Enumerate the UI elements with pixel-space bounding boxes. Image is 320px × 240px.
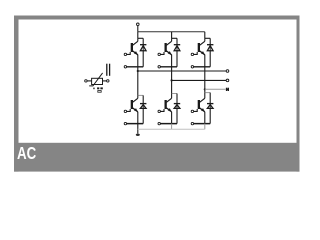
wire phase midpoint leg 2: [171, 67, 173, 94]
thermistor terminal right: [107, 80, 109, 82]
aux emitter terminal top leg 1: [124, 66, 126, 68]
wire thermistor right: [103, 80, 107, 82]
gate/aux terminal bottom leg 2: [158, 122, 160, 124]
wire collector-diode link top leg 1: [138, 37, 143, 39]
frame right border: [297, 16, 300, 172]
diode antiparallel bottom leg 3: [207, 93, 213, 124]
aux emitter terminal top leg 2: [158, 66, 160, 68]
wire collector-diode link bottom leg 1: [138, 94, 143, 96]
wire collector-diode link top leg 3: [205, 37, 210, 39]
wire aux emitter top leg 3: [194, 66, 211, 68]
thermistor terminal left: [85, 80, 87, 82]
wire emitter stub to DC- bus leg 3: [204, 124, 206, 130]
frame left border: [14, 16, 19, 172]
wire phase V output: [172, 79, 227, 81]
wire aux emitter bottom leg 1: [127, 123, 144, 125]
wire phase U output: [138, 70, 226, 72]
wire emitter vertical top leg 2: [171, 55, 173, 67]
wire phase midpoint leg 1: [137, 67, 139, 96]
frame top border: [14, 16, 300, 20]
IGBT top leg V (middle): [158, 38, 172, 55]
DC- terminal N: [136, 134, 140, 136]
diode antiparallel bottom leg 1: [140, 95, 146, 123]
node phase junction leg 1: [137, 70, 139, 72]
wire sensor pair left: [106, 64, 108, 76]
DC+ terminal P: [137, 23, 140, 32]
wire phase midpoint leg 3: [204, 67, 206, 93]
IGBT top leg U (left): [124, 38, 138, 55]
wire DC- bus: [138, 128, 205, 130]
diode antiparallel top leg 1: [140, 38, 146, 67]
wire collector drop leg 2: [171, 32, 173, 39]
wire DC+ bus: [138, 31, 205, 33]
wire phase W output: [205, 88, 226, 90]
wire emitter vertical top leg 1: [137, 55, 139, 67]
wire aux emitter bottom leg 3: [194, 123, 211, 125]
terminal AC output V: [226, 79, 229, 82]
diode antiparallel top leg 2: [174, 38, 180, 67]
wire emitter stub to DC- bus leg 2: [171, 124, 173, 130]
wire aux emitter top leg 1: [127, 66, 144, 68]
wire collector-diode link bottom leg 3: [205, 92, 210, 94]
wire collector-diode link bottom leg 2: [172, 93, 177, 95]
wire emitter to DC- leg 1: [137, 124, 139, 134]
wire collector drop leg 1: [137, 32, 139, 39]
wire emitter vertical bottom leg 3: [204, 112, 206, 124]
IGBT top leg W (right): [191, 38, 205, 55]
AC label text: [17, 145, 36, 163]
diode antiparallel top leg 3: [207, 38, 213, 67]
wire emitter vertical bottom leg 2: [171, 112, 173, 124]
thermistor diagonal: [89, 73, 102, 86]
IGBT bottom leg W (right): [191, 93, 205, 113]
AC label bar: [14, 143, 300, 172]
wire thermistor left: [87, 80, 92, 82]
IGBT bottom leg U (left): [124, 95, 138, 112]
terminal AC output W (square mark): [226, 88, 229, 91]
aux emitter terminal top leg 3: [191, 66, 193, 68]
node phase junction leg 2: [171, 79, 173, 81]
wire collector-diode link top leg 2: [172, 37, 177, 39]
thermistor label glyphs: [93, 87, 103, 92]
wire aux emitter top leg 2: [160, 66, 177, 68]
wire aux emitter bottom leg 2: [160, 123, 177, 125]
wire emitter vertical top leg 3: [204, 55, 206, 67]
terminal AC output U: [226, 70, 229, 73]
gate/aux terminal bottom leg 3: [191, 122, 193, 124]
IGBT bottom leg V (middle): [158, 94, 172, 113]
wire collector drop leg 3: [204, 32, 206, 39]
gate/aux terminal bottom leg 1: [124, 122, 126, 124]
wire emitter vertical bottom leg 1: [137, 112, 139, 124]
wire sensor pair right: [109, 64, 111, 76]
node phase junction leg 3: [204, 88, 206, 90]
diode antiparallel bottom leg 2: [174, 94, 180, 124]
thermistor R1 body: [92, 78, 103, 84]
